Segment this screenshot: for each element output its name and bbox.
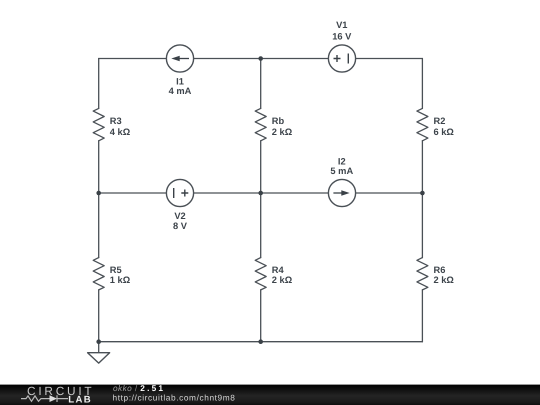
wire right rail R2-to-middle <box>421 141 423 193</box>
current source I1 circle <box>166 45 193 72</box>
voltage source V1 circle <box>328 45 355 72</box>
wire left rail lower (R5 bottom lead) <box>98 290 100 342</box>
svg-text:Rb: Rb <box>272 116 285 126</box>
svg-text:R6: R6 <box>434 265 446 275</box>
resistor R3 zigzag <box>93 108 104 140</box>
wire bottom horizontal <box>99 341 423 343</box>
resistor R6 zigzag <box>417 258 428 290</box>
ground stub wire <box>98 342 100 353</box>
junction node right-middle <box>420 191 425 196</box>
svg-text:8 V: 8 V <box>173 221 188 231</box>
svg-text:4 mA: 4 mA <box>169 86 192 96</box>
resistor R2 zigzag <box>417 108 428 140</box>
svg-text:R5: R5 <box>110 265 122 275</box>
footer bar <box>0 385 540 405</box>
current source I2 circle <box>328 179 355 206</box>
svg-text:I1: I1 <box>176 76 184 86</box>
footer logo waveform resistor <box>21 396 50 401</box>
svg-text:6 kΩ: 6 kΩ <box>434 127 455 137</box>
wire top-left horizontal (I1 left lead) <box>99 58 166 60</box>
ground triangle <box>88 353 110 363</box>
wire left rail upper (R3 top lead) <box>98 59 100 109</box>
svg-text:LAB: LAB <box>68 395 92 405</box>
wire middle rail lower (R4 bottom lead) <box>260 290 262 342</box>
svg-text:2 kΩ: 2 kΩ <box>434 275 455 285</box>
resistor Rb zigzag <box>255 108 266 140</box>
junction node center <box>258 191 263 196</box>
voltage source V2 circle <box>166 179 193 206</box>
wire left rail middle-to-R5 <box>98 193 100 258</box>
voltage source V2 minus bar <box>173 188 175 198</box>
svg-text:2 kΩ: 2 kΩ <box>272 127 293 137</box>
svg-text:1 kΩ: 1 kΩ <box>110 275 131 285</box>
wire middle rail Rb-to-middle <box>260 141 262 193</box>
svg-text:V1: V1 <box>336 20 347 30</box>
junction node left-middle <box>96 191 101 196</box>
voltage source V1 minus bar <box>347 54 349 64</box>
wire left rail R3-to-middle <box>98 141 100 193</box>
svg-text:4 kΩ: 4 kΩ <box>110 127 131 137</box>
wire right rail lower (R6 bottom lead) <box>421 290 423 342</box>
wire right rail upper (R2 top lead) <box>421 59 423 109</box>
svg-text:http://circuitlab.com/chnt9m8: http://circuitlab.com/chnt9m8 <box>113 392 236 402</box>
wire middle horizontal right (I2 right lead) <box>356 192 423 194</box>
svg-text:5 mA: 5 mA <box>330 166 353 176</box>
svg-text:R2: R2 <box>434 116 446 126</box>
svg-text:16 V: 16 V <box>332 31 352 41</box>
wire right rail middle-to-R6 <box>421 193 423 258</box>
wire middle horizontal V2-to-I2 <box>194 192 328 194</box>
wire middle rail middle-to-R4 <box>260 193 262 258</box>
svg-text:2 kΩ: 2 kΩ <box>272 275 293 285</box>
voltage source V2 plus sign <box>181 190 188 197</box>
wire middle rail upper (Rb top lead) <box>260 59 262 109</box>
svg-text:I2: I2 <box>338 156 346 166</box>
current source I2 arrow <box>333 192 346 194</box>
junction node bottom-middle <box>258 339 263 344</box>
svg-text:R3: R3 <box>110 116 122 126</box>
junction node top-middle <box>258 56 263 61</box>
current source I1 arrow <box>177 58 190 60</box>
svg-text:V2: V2 <box>174 211 185 221</box>
voltage source V1 plus sign <box>334 55 341 62</box>
footer logo diode <box>50 395 58 402</box>
wire top horizontal I1-to-V1 <box>194 58 328 60</box>
resistor R5 zigzag <box>93 258 104 290</box>
wire top-right horizontal (V1 right lead) <box>356 58 423 60</box>
svg-text:R4: R4 <box>272 265 285 275</box>
junction node ground <box>96 339 101 344</box>
wire middle horizontal left (V2 left lead) <box>99 192 166 194</box>
resistor R4 zigzag <box>255 258 266 290</box>
